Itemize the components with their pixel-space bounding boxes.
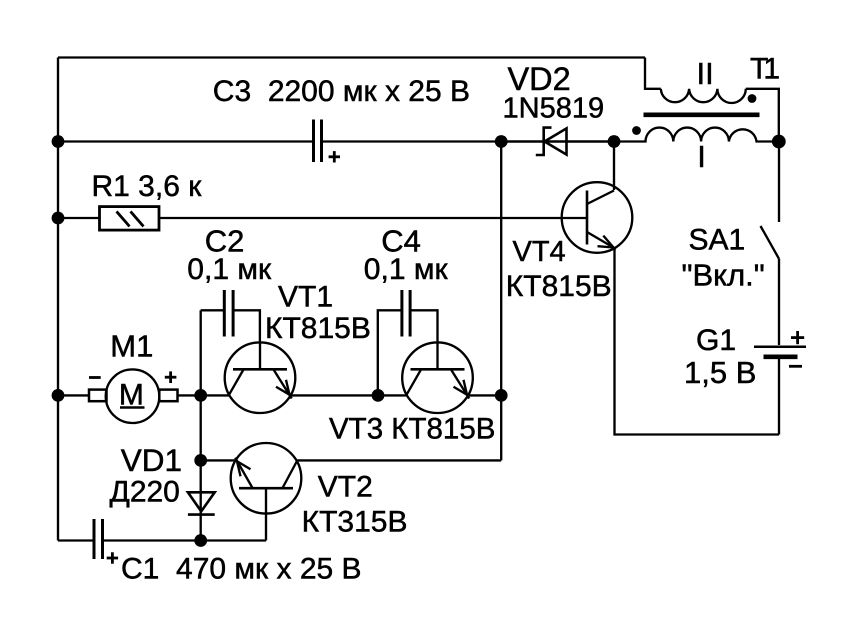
battery G1: [754, 347, 806, 435]
svg-text:R1 3,6 к: R1 3,6 к: [92, 170, 203, 203]
svg-text:1,5 В: 1,5 В: [684, 355, 756, 390]
svg-text:I: I: [697, 139, 706, 174]
node dot (58,218): [52, 212, 65, 225]
capacitor C4: [378, 290, 438, 395]
label G1 plus: [791, 331, 804, 344]
node dot (501,141.5): [495, 135, 508, 148]
svg-text:0,1 мк: 0,1 мк: [187, 253, 272, 286]
wire R1 line left: [58, 217, 100, 219]
transistor VT3: [402, 342, 473, 413]
switch SA1: [761, 142, 780, 346]
label C1 plus: [107, 552, 118, 563]
label M1 plus: [165, 371, 177, 383]
wire bottom C1 line right: [104, 539, 266, 541]
capacitor C2: [201, 290, 260, 343]
label M1 minus: [89, 376, 101, 379]
transistor VT1: [225, 342, 296, 413]
wire vertical C3/VT3 node x=501: [500, 142, 502, 461]
svg-text:КТ315В: КТ315В: [302, 506, 408, 539]
diode VD2 (schottky): [501, 128, 614, 155]
node dot (778.8,141.5): [772, 135, 786, 149]
wire VT4 emitter down and battery loop bottom: [615, 247, 780, 435]
node dot (501.2,395.4): [495, 389, 508, 402]
wire vertical VD1 rail x=200.7: [200, 310, 202, 540]
svg-text:T1: T1: [750, 53, 779, 86]
capacitor C3: [314, 120, 322, 163]
resistor R1: [100, 207, 160, 231]
svg-text:SA1: SA1: [689, 224, 746, 257]
wire motor line segments: [58, 394, 89, 396]
transistor VT4: [562, 182, 633, 253]
svg-text:0,1 мк: 0,1 мк: [364, 253, 449, 286]
node dot (200.7,460.4): [194, 454, 207, 467]
svg-text:VD1: VD1: [121, 442, 182, 478]
svg-text:VT2: VT2: [318, 471, 373, 504]
node dot (58,395.4): [52, 389, 65, 402]
svg-text:M: M: [119, 379, 144, 412]
transistor VT2: [231, 443, 302, 541]
wire C3 line right segment: [323, 140, 501, 142]
wire VT2 emitter line: [201, 459, 237, 461]
node dot (614,141.5): [608, 135, 621, 148]
svg-text:КТ815В: КТ815В: [265, 312, 371, 345]
svg-text:VT1: VT1: [278, 281, 333, 314]
motor M1: [89, 369, 178, 423]
svg-text:M1: M1: [110, 329, 153, 364]
label G1 minus: [789, 365, 802, 368]
wire VT4 collector up: [613, 142, 615, 191]
svg-text:VT4: VT4: [513, 236, 566, 268]
node dot (200.7,540.5): [194, 534, 207, 547]
transformer T1 winding I: [614, 128, 779, 142]
node dot (378,395.4): [372, 389, 385, 402]
wire top horizontal: [58, 56, 645, 58]
node dot (58,141.5): [52, 135, 65, 148]
wire C3 line left segment: [58, 140, 312, 142]
svg-text:КТ815В: КТ815В: [506, 270, 612, 303]
wire winding II right lead: [746, 89, 779, 142]
transformer T1 winding II: [661, 89, 746, 103]
svg-text:VT3 КТ815В: VT3 КТ815В: [329, 413, 495, 446]
node dot (200.7,395.4): [194, 389, 207, 402]
svg-text:"Вкл.": "Вкл.": [682, 258, 765, 293]
transformer phase dot winding I: [632, 126, 641, 135]
svg-text:G1: G1: [696, 324, 736, 357]
transformer T1 core: [644, 113, 760, 118]
svg-text:C1 470 мк x 25 В: C1 470 мк x 25 В: [121, 553, 362, 586]
transformer phase dot winding II: [748, 94, 757, 103]
wire left vertical rail: [57, 58, 59, 541]
svg-text:1N5819: 1N5819: [503, 93, 605, 125]
svg-text:Д220: Д220: [110, 476, 180, 509]
capacitor C1: [94, 519, 103, 559]
svg-text:C3 2200 мк x 25 В: C3 2200 мк x 25 В: [213, 75, 470, 108]
svg-text:II: II: [697, 56, 714, 91]
label C3 plus: [329, 151, 340, 162]
wire bottom C1 line left: [58, 539, 93, 541]
diode VD1: [188, 492, 215, 514]
wire top right drop to winding II: [645, 58, 661, 89]
wire R1 line right to VT4 base: [159, 217, 587, 219]
